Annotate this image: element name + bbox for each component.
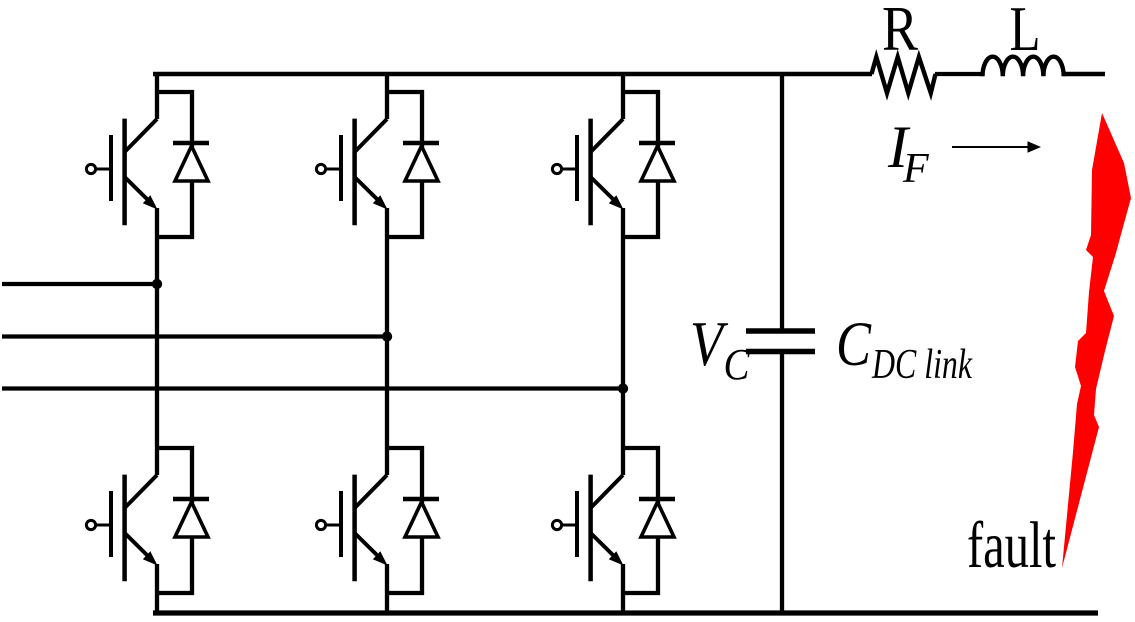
wire: between R and L — [935, 72, 984, 76]
wire: leg a upper emitter to phase node — [155, 208, 159, 284]
transistor Q2 (IGBT) — [316, 119, 387, 226]
wire: leg c lower emitter to bottom rail — [621, 564, 625, 615]
transistor Q6 (IGBT) — [552, 475, 623, 582]
wire: leg c upper collector drop — [621, 72, 625, 119]
wire: bottom DC- rail — [153, 610, 1098, 615]
wire: leg a lower emitter to bottom rail — [155, 564, 159, 615]
node: phase A junction dot — [152, 279, 162, 289]
wire: leg b upper collector drop — [385, 72, 389, 119]
arrow: fault current direction — [952, 141, 1041, 152]
label C_DC link (capacitor name) — [836, 309, 973, 388]
svg-text:C: C — [836, 309, 872, 379]
label I_F (fault current) — [887, 114, 929, 192]
wire: leg c phase node to lower collector — [621, 389, 625, 476]
wire: capacitor top branch — [780, 74, 784, 329]
transistor Q3 (IGBT) — [552, 119, 623, 226]
diode D3 (freewheeling) — [621, 92, 675, 237]
transistor Q5 (IGBT) — [316, 475, 387, 582]
label V_C (capacitor voltage) — [690, 308, 750, 389]
wire: leg a upper collector drop — [155, 72, 159, 119]
wire: leg b phase node to lower collector — [385, 337, 389, 476]
transistor Q4 (IGBT) — [86, 475, 157, 582]
wire: after inductor to fault point — [1063, 72, 1105, 76]
diode D2 (freewheeling) — [385, 92, 439, 237]
wire: leg c upper emitter to phase node — [621, 208, 625, 389]
wire: phase B input line — [2, 334, 387, 338]
wire: leg a phase node to lower collector — [155, 284, 159, 475]
wire: phase A input line — [2, 282, 157, 286]
diode D1 (freewheeling) — [155, 92, 209, 237]
wire: top DC+ rail — [153, 72, 872, 77]
node: phase B junction dot — [382, 331, 392, 341]
wire: leg b upper emitter to phase node — [385, 208, 389, 337]
node: phase C junction dot — [618, 383, 628, 393]
diode D5 (freewheeling) — [385, 448, 439, 593]
inductor L — [983, 57, 1064, 77]
transistor Q1 (IGBT) — [86, 119, 157, 226]
svg-text:fault: fault — [967, 509, 1056, 582]
wire: phase C input line — [2, 386, 623, 390]
svg-text:L: L — [1010, 0, 1041, 64]
svg-text:F: F — [902, 146, 929, 192]
resistor R — [872, 57, 936, 93]
diode D4 (freewheeling) — [155, 448, 209, 593]
svg-text:R: R — [882, 0, 918, 64]
svg-text:C: C — [724, 340, 751, 389]
wire: capacitor bottom branch — [780, 354, 784, 613]
wire: leg b lower emitter to bottom rail — [385, 564, 389, 615]
svg-text:DC link: DC link — [871, 342, 973, 388]
diode D6 (freewheeling) — [621, 448, 675, 593]
capacitor C_DC_link plates — [746, 331, 815, 352]
fault symbol: red lightning bolt — [1062, 113, 1131, 568]
